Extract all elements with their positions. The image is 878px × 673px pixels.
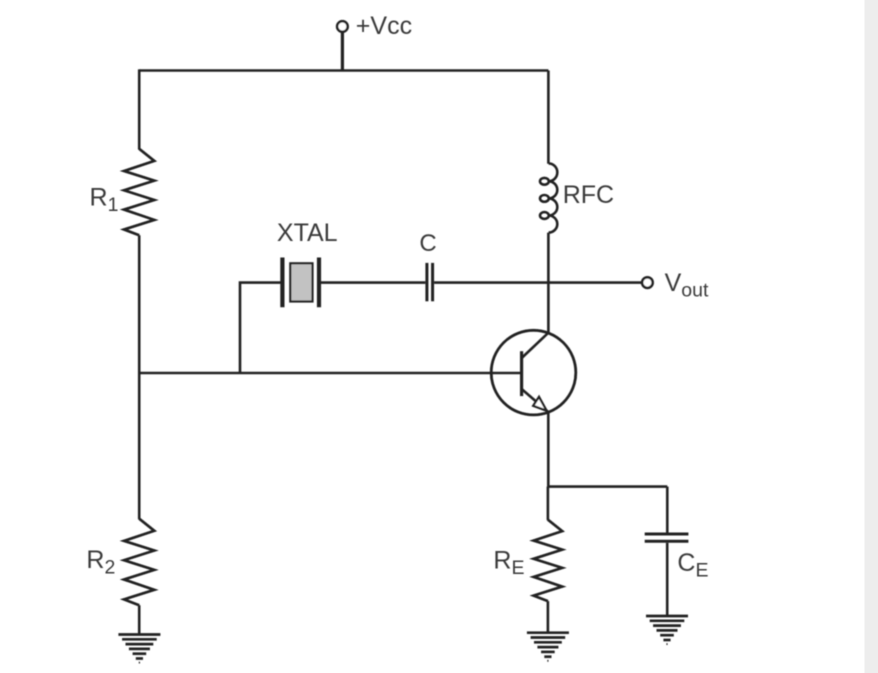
capacitor CE [645, 534, 689, 541]
wire [434, 281, 641, 284]
svg-text:XTAL: XTAL [277, 219, 338, 247]
wire [138, 373, 141, 519]
resistor R1 [124, 149, 154, 236]
wire [547, 233, 550, 334]
ground [118, 635, 160, 664]
wire [321, 281, 425, 284]
wire [547, 487, 550, 521]
wire [547, 485, 667, 488]
resistor RE [534, 520, 563, 601]
transistor Q1 [491, 330, 576, 415]
wire [341, 33, 344, 71]
wire [139, 372, 521, 375]
resistor R2 [124, 519, 154, 606]
ground [646, 616, 688, 645]
ground [527, 633, 569, 662]
power terminal +Vcc [337, 21, 348, 32]
crystal XTAL [282, 258, 319, 308]
wire [138, 235, 141, 373]
capacitor C [427, 263, 433, 301]
wire [240, 283, 281, 373]
wire [547, 71, 550, 164]
wire [666, 487, 669, 533]
wire [139, 69, 548, 72]
output terminal Vout [642, 277, 653, 288]
wire [138, 69, 141, 149]
wire [666, 543, 669, 616]
wire [138, 605, 141, 634]
svg-text:+Vcc: +Vcc [356, 12, 412, 40]
wire [547, 601, 550, 633]
inductor RFC [540, 163, 557, 232]
svg-text:C: C [419, 230, 436, 257]
svg-text:RFC: RFC [563, 181, 614, 209]
wire [547, 412, 550, 488]
